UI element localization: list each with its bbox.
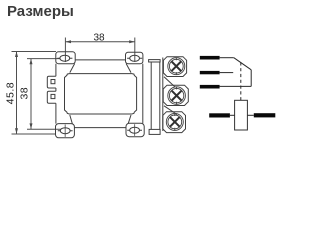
side view body right edge xyxy=(159,62,161,129)
step diagonal bottom-left xyxy=(70,115,73,124)
side view top flange xyxy=(149,60,161,62)
terminal block 2 xyxy=(163,85,188,105)
extension line 45.8 bottom xyxy=(12,133,57,135)
mounting ear bottom-right xyxy=(126,123,144,136)
screw 1 phillips cross xyxy=(172,62,181,71)
terminal block 3 xyxy=(163,112,186,133)
extension line left 38 bottom xyxy=(27,128,61,130)
open contact wire from middle bar xyxy=(220,72,234,74)
svg-text:45.8: 45.8 xyxy=(5,82,17,104)
step diagonal top-right xyxy=(126,64,131,73)
hole bottom-right xyxy=(130,127,140,133)
dimension left 38 top arrowhead xyxy=(30,59,33,65)
screw 2 phillips cross xyxy=(172,91,182,101)
coil rectangle xyxy=(235,100,248,130)
screw 3 outer circle xyxy=(166,113,183,130)
centerline bottom-right hole xyxy=(134,124,136,136)
tab hole upper xyxy=(51,80,55,84)
svg-text:38: 38 xyxy=(93,33,105,44)
wire right vertical xyxy=(250,70,252,87)
mounting ear bottom-left xyxy=(56,124,75,138)
body right edge xyxy=(142,64,144,124)
body bottom edge between ears xyxy=(74,127,126,129)
side view body left edge xyxy=(150,62,152,129)
screw 1 slot ticks xyxy=(175,58,177,75)
cover box with stepped chamfer corners xyxy=(65,74,137,114)
extension line left 38 top xyxy=(27,58,61,60)
extension centerline left hole xyxy=(64,38,66,63)
molding diagonal between blocks 2-3 xyxy=(164,106,177,115)
dimension left 45.8 line xyxy=(16,51,18,133)
terminal bar 87 (bottom) xyxy=(200,85,220,89)
coil terminal bar left xyxy=(209,113,230,117)
wire bottom horizontal to bar 87 xyxy=(220,85,252,87)
body left edge xyxy=(55,64,57,124)
movable contact arm diagonal xyxy=(234,58,251,70)
hole bottom-left xyxy=(60,128,70,134)
extension centerline right hole xyxy=(134,38,136,63)
wire from top bar xyxy=(220,57,234,59)
coil right wire xyxy=(247,114,253,116)
side view bottom flange xyxy=(149,129,160,134)
centerline bottom-left hole xyxy=(64,125,66,137)
hole top-right xyxy=(130,55,140,61)
step diagonal top-left xyxy=(70,64,75,73)
dimension left 38 bottom arrowhead xyxy=(30,123,33,129)
screw 2 inner circle xyxy=(169,88,183,102)
coil left wire xyxy=(230,114,235,116)
screw 3 inner circle xyxy=(168,115,182,129)
dimension top 38 left arrowhead xyxy=(65,40,71,43)
step diagonal bottom-right xyxy=(128,115,131,123)
dimension left 38 line xyxy=(30,59,32,129)
tab hole lower xyxy=(51,94,55,98)
extension line 45.8 top xyxy=(12,51,57,53)
mounting ear top-left xyxy=(56,52,75,64)
coil terminal bar right xyxy=(254,113,275,117)
dimension top 38 line xyxy=(65,41,134,43)
body top edge between ears xyxy=(75,59,125,61)
terminal bar 87a (middle) xyxy=(200,71,220,74)
dimension top 38 right arrowhead xyxy=(129,40,135,43)
terminal strip left edge xyxy=(162,58,164,132)
mounting tab upper-left xyxy=(47,76,56,88)
dimension 45.8 bottom arrowhead xyxy=(15,128,18,134)
terminal block 1 xyxy=(163,57,186,77)
svg-text:38: 38 xyxy=(19,87,31,100)
dimension 45.8 top arrowhead xyxy=(15,51,18,57)
screw 1 outer circle xyxy=(168,58,185,75)
screw 1 inner circle xyxy=(169,59,183,73)
screw 2 slot ticks xyxy=(176,87,178,104)
terminal bar 30 (top) xyxy=(200,56,220,60)
dashed actuator link xyxy=(240,62,242,100)
screw 3 slot ticks xyxy=(174,114,176,131)
title "Размеры" xyxy=(7,3,74,20)
screw 2 outer circle xyxy=(168,87,186,105)
mounting tab lower-left xyxy=(47,91,56,103)
screw 3 phillips cross xyxy=(170,117,179,126)
mounting ear top-right xyxy=(126,52,143,64)
hole top-left: ellipse with slot ticks xyxy=(60,55,70,61)
molding diagonal between blocks 1-2 xyxy=(164,77,175,88)
